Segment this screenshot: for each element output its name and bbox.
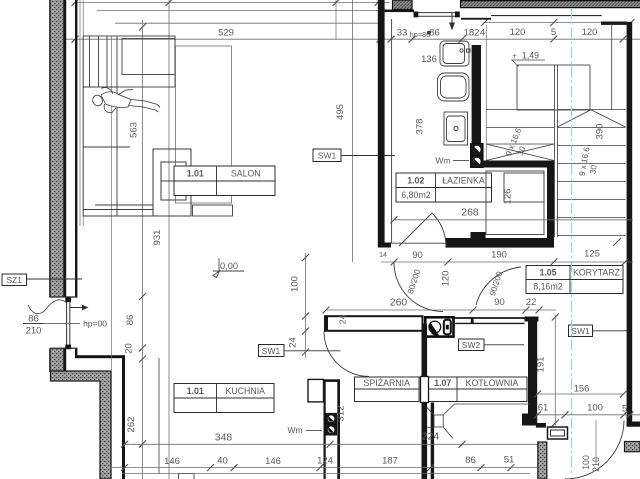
label SZ1: [2, 274, 82, 286]
small box bottom edge: [179, 474, 195, 479]
entry pier hatched block: [385, 0, 415, 12]
label Wm kitchen: [287, 425, 322, 435]
entry door extension line: [595, 420, 597, 464]
svg-text:124: 124: [317, 456, 333, 467]
svg-text:495: 495: [335, 104, 346, 120]
extension line x486 stairs: [485, 25, 487, 161]
svg-text:Wm: Wm: [287, 425, 302, 435]
marker 0,00: [213, 258, 244, 278]
wall inner face salon bottom-left: [75, 355, 125, 479]
label Wm bath: [435, 156, 469, 166]
svg-text:5: 5: [622, 404, 627, 415]
svg-text:8,16m2: 8,16m2: [533, 282, 562, 292]
svg-text:+: +: [512, 52, 517, 61]
wall left outer between window and step: [50, 348, 78, 372]
kotlownia door/flue symbol: [426, 404, 530, 439]
entry door arc: [565, 421, 624, 479]
room label 1.02 LAZIENKA 6,80m2: [396, 173, 492, 202]
svg-text:90: 90: [494, 297, 505, 308]
svg-text:187: 187: [382, 456, 398, 467]
spizarnia door arc: [324, 332, 369, 377]
dim line vertical x169 (931): [152, 0, 169, 479]
wall inner face top right: [461, 16, 627, 25]
svg-text:SALON: SALON: [231, 169, 261, 179]
washing machine bath: [444, 112, 468, 145]
svg-text:SZ1: SZ1: [6, 275, 22, 285]
label SW1 korytarz: [569, 325, 628, 337]
dimension chain 120-5-120 over stairs: [481, 19, 635, 43]
wall cap + 14 label: [378, 243, 391, 260]
extension line x111: [110, 36, 112, 371]
wall central salon/bath: [378, 0, 385, 243]
svg-text:KUCHNIA: KUCHNIA: [225, 386, 265, 396]
dim chain 146-40-146-187-86-51: [110, 455, 537, 472]
stairs end tick: [613, 238, 621, 246]
dim line x352 with 495: [335, 0, 353, 262]
svg-text:40: 40: [217, 456, 228, 467]
closet walls under stairs: [483, 161, 554, 248]
wall right outer: [627, 22, 633, 426]
svg-text:136: 136: [421, 54, 437, 65]
svg-text:SW1: SW1: [318, 151, 337, 161]
elevation +1,49: [511, 51, 545, 67]
svg-text:120: 120: [510, 27, 526, 38]
svg-text:33: 33: [397, 28, 408, 39]
svg-text:1.02: 1.02: [407, 175, 424, 185]
svg-text:hp=00: hp=00: [83, 319, 107, 329]
svg-text:378: 378: [415, 119, 426, 135]
svg-text:1,49: 1,49: [522, 51, 539, 61]
label SW2: [459, 339, 525, 351]
svg-text:125: 125: [584, 249, 600, 260]
svg-text:SW2: SW2: [462, 340, 481, 350]
svg-text:156: 156: [574, 384, 590, 395]
svg-text:ŁAZIENKA: ŁAZIENKA: [442, 175, 485, 185]
kitchen appliance box: [308, 379, 324, 402]
svg-text:268: 268: [461, 207, 479, 219]
svg-text:22: 22: [526, 297, 537, 308]
bathroom south wall with door opening: [391, 232, 554, 248]
entry door frame: [548, 427, 568, 439]
dim line vertical x305 (100/24): [288, 253, 310, 358]
kitchen north wall white core: [325, 315, 423, 331]
svg-text:0,00: 0,00: [220, 261, 238, 271]
door korytarz-closet arc: [476, 267, 521, 305]
dimension chain line top-3: [115, 22, 378, 24]
svg-text:4: 4: [480, 28, 485, 39]
rug outline salon: [176, 46, 232, 203]
svg-text:390: 390: [595, 124, 606, 140]
svg-text:100: 100: [581, 455, 591, 470]
stairs handrail line: [611, 25, 613, 110]
svg-text:191: 191: [536, 357, 547, 373]
svg-text:262: 262: [126, 417, 137, 433]
room label 1.05 KORYTARZ 8,16m2: [526, 266, 623, 294]
stairs direction numbers left: [504, 126, 528, 157]
svg-text:SW1: SW1: [262, 346, 281, 356]
svg-text:20: 20: [124, 343, 135, 354]
small furniture below salon label: [193, 205, 233, 216]
dim chain 156: [534, 384, 627, 398]
svg-text:1.05: 1.05: [539, 268, 556, 278]
stairs centerline: [571, 8, 573, 475]
svg-text:Wm: Wm: [435, 156, 450, 166]
svg-text:KORYTARZ: KORYTARZ: [573, 268, 621, 278]
room label SPIZARNIA: [355, 377, 420, 402]
svg-text:SPIŻARNIA: SPIŻARNIA: [364, 378, 411, 388]
wall left outer upper: [50, 0, 78, 298]
entry door label 100/210: [581, 455, 601, 472]
svg-text:86: 86: [465, 455, 476, 466]
dimension chain line 529-33-86-182: [63, 28, 640, 43]
stairs numbers right: [578, 146, 599, 177]
dim line vertical x555 (191): [536, 314, 559, 427]
svg-text:5: 5: [551, 27, 556, 38]
svg-text:210: 210: [591, 457, 601, 472]
sink: [440, 41, 470, 66]
bathroom east wall: [472, 45, 481, 144]
svg-text:KOTŁOWNIA: KOTŁOWNIA: [466, 378, 519, 388]
label SW1 kitchen: [259, 345, 341, 357]
svg-text:120: 120: [582, 27, 598, 38]
entry left pier: [536, 423, 547, 479]
dim chain 90-190-125: [381, 249, 633, 266]
label SW1 upper: [313, 149, 395, 162]
boiler block: [425, 317, 453, 336]
dimension chain line top-1: [72, 0, 391, 6]
dim 268 line: [391, 207, 634, 224]
extension line x336: [335, 0, 337, 40]
svg-text:120: 120: [441, 271, 452, 287]
dim chain 61-100-5: [534, 403, 640, 419]
stairs left flight treads: [486, 110, 554, 161]
svg-text:260: 260: [390, 297, 408, 309]
svg-text:224: 224: [422, 431, 440, 443]
bathroom inner west face: [391, 19, 393, 243]
bath door leaf+arc: [399, 213, 446, 246]
stairs divider: [555, 65, 558, 237]
dim chain line 3: [122, 473, 530, 475]
svg-text:182: 182: [464, 28, 480, 39]
svg-text:190: 190: [491, 250, 507, 261]
svg-text:90: 90: [412, 250, 423, 261]
duct symbols bath wall: [471, 144, 483, 156]
svg-text:312: 312: [336, 406, 347, 422]
entry arrow down: [449, 13, 455, 31]
stairs landing: [517, 65, 590, 110]
room label 1.01 KUCHNIA: [174, 384, 274, 413]
dim chain 348-224: [121, 431, 537, 448]
korytarz west wall: [522, 317, 539, 426]
room label 1.07 KOTLOWNIA: [429, 377, 528, 402]
door salon-korytarz arc: [394, 263, 443, 312]
svg-text:100: 100: [290, 276, 301, 292]
svg-text:100: 100: [587, 403, 603, 414]
svg-text:931: 931: [152, 230, 163, 246]
stairs right flight treads: [557, 110, 625, 236]
wall left stepped corner: [51, 371, 112, 479]
sofa corner salon: [83, 36, 191, 216]
svg-text:563: 563: [129, 122, 140, 138]
svg-text:86: 86: [28, 314, 39, 325]
wall top right hatched: [460, 0, 640, 8]
duct symbol: [326, 413, 337, 424]
kitchen counter edge: [158, 358, 160, 474]
kotlownia north wall: [454, 317, 525, 324]
svg-text:146: 146: [265, 456, 281, 467]
svg-text:hp=86: hp=86: [410, 30, 431, 39]
window break squiggle: [28, 300, 67, 314]
svg-text:529: 529: [218, 28, 234, 39]
svg-text:348: 348: [215, 432, 233, 444]
window open-direction arrow: [70, 305, 89, 311]
svg-text:210: 210: [26, 326, 42, 337]
svg-text:1.01: 1.01: [187, 386, 204, 396]
entry threshold: [414, 12, 460, 18]
svg-text:1.01: 1.01: [187, 169, 204, 179]
window SZ1 in left wall: [65, 298, 71, 350]
extension lines x80 x83: [80, 0, 83, 226]
room label 1.01 SALON: [174, 166, 275, 196]
toilet: [438, 73, 470, 101]
svg-text:126: 126: [503, 189, 514, 205]
closet interior: [486, 171, 544, 235]
svg-text:24: 24: [288, 337, 299, 348]
svg-text:6,80m2: 6,80m2: [401, 190, 430, 200]
svg-text:86: 86: [125, 315, 136, 326]
svg-text:61: 61: [538, 403, 549, 414]
svg-text:14: 14: [379, 252, 387, 259]
person lying on sofa: [91, 88, 160, 113]
wall right bottom corner: [625, 422, 640, 453]
svg-text:24: 24: [338, 315, 348, 325]
dim line vertical x142 (563/86/20/262): [124, 20, 147, 479]
kotlownia west wall: [421, 324, 435, 479]
svg-text:86: 86: [429, 28, 440, 39]
dim chain 260-90-22: [323, 297, 557, 314]
label 86/210 hp=00: [23, 314, 107, 337]
tv cabinet salon: [153, 149, 191, 216]
duct stack kitchen: [324, 379, 341, 479]
svg-text:1.07: 1.07: [434, 378, 451, 388]
svg-text:SW1: SW1: [571, 326, 590, 336]
svg-text:51: 51: [504, 455, 515, 466]
dimension chain line top-2: [97, 10, 378, 12]
duct symbol: [326, 424, 337, 435]
svg-text:146: 146: [164, 456, 180, 467]
